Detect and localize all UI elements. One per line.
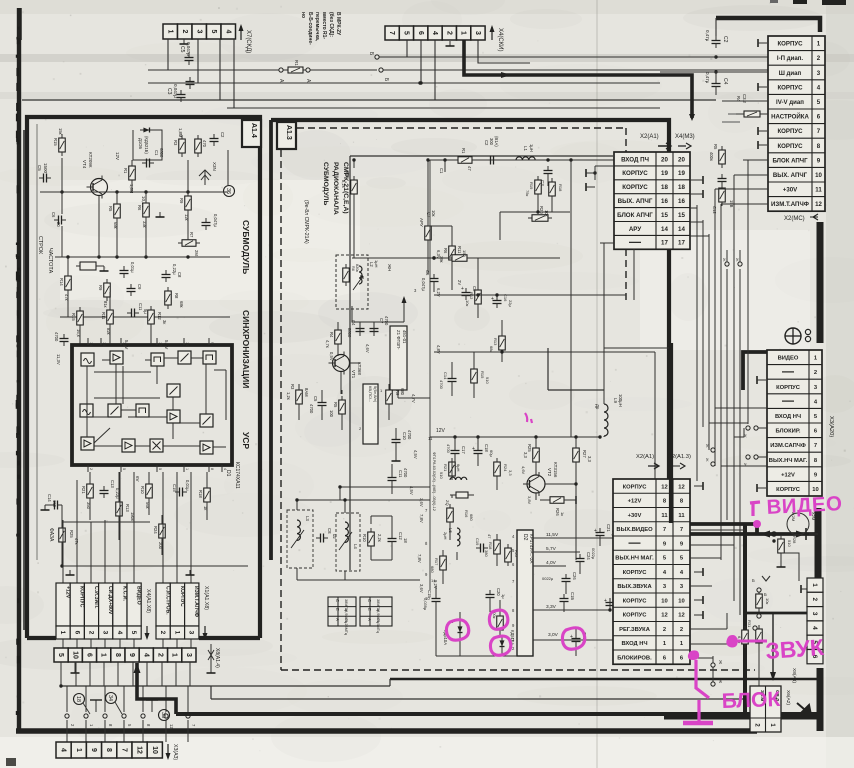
svg-text:8: 8 — [105, 748, 112, 752]
wires A14 upper verticals — [62, 150, 228, 345]
inductor L1 — [516, 157, 535, 160]
cap C9 — [127, 284, 136, 296]
svg-text:7,8V: 7,8V — [419, 514, 424, 523]
resistor R6a 39k — [449, 242, 456, 264]
svg-text:+: + — [472, 446, 475, 452]
label submodule radiokanala — [303, 162, 349, 244]
labels X2(A1) X2(A1.3) — [636, 454, 691, 469]
svg-text:4700: 4700 — [439, 380, 444, 390]
svg-text:Х8(А1.4): Х8(А1.4) — [214, 648, 220, 668]
svg-text:X4(СКИ): X4(СКИ) — [497, 28, 503, 51]
svg-text:Х3N: Х3N — [212, 162, 217, 171]
cap C24 0022u — [576, 548, 597, 566]
svg-text:10: 10 — [151, 746, 158, 754]
note text MRK-2U — [300, 12, 341, 45]
IC D1 box — [72, 345, 232, 465]
svg-text:X4(М3): X4(М3) — [675, 134, 695, 140]
resistor R28 510 — [771, 531, 797, 567]
svg-text:R9: R9 — [98, 285, 103, 291]
svg-text:С12: С12 — [398, 532, 403, 540]
svg-text:10: 10 — [815, 172, 822, 179]
svg-text:+: + — [604, 598, 607, 604]
gnd ticks right of X2 table — [694, 482, 703, 619]
cap C4a 8800 — [356, 324, 365, 336]
wire y83 long — [148, 82, 660, 84]
svg-text:ВХОД НЧ: ВХОД НЧ — [775, 414, 801, 420]
svg-text:С6: С6 — [51, 212, 56, 218]
svg-text:14: 14 — [661, 226, 668, 233]
small labels right mid — [712, 200, 734, 214]
wire row12 — [721, 203, 768, 205]
table X4(A1.X8) labels — [56, 583, 142, 639]
right vertical strip X5 — [807, 578, 823, 664]
svg-text:R6: R6 — [443, 248, 448, 254]
svg-text:11: 11 — [661, 513, 668, 519]
resistor R10a 2.2k — [368, 528, 375, 550]
resistor R5 400k — [719, 146, 726, 168]
svg-text:С20: С20 — [496, 588, 501, 596]
svg-text:3,6V: 3,6V — [419, 498, 424, 507]
svg-text:0,047μ: 0,047μ — [173, 84, 178, 98]
svg-text:5,7V: 5,7V — [546, 546, 557, 552]
svg-text:75к: 75к — [525, 190, 530, 196]
svg-text:ИЗМ.САПЧФ: ИЗМ.САПЧФ — [770, 443, 806, 449]
capacitor C3 0.047u — [177, 90, 186, 102]
svg-text:35: 35 — [160, 712, 166, 718]
resistor R1 1.8M — [129, 162, 136, 184]
svg-text:А: А — [335, 618, 340, 621]
cap C8 0.22u — [162, 270, 171, 282]
VT4 label — [82, 152, 93, 169]
svg-text:8АМ: 8АМ — [304, 388, 309, 397]
resistor R25a 3.3 — [533, 444, 540, 466]
svg-text:6: 6 — [73, 631, 80, 635]
cap C16b 22u pol — [491, 294, 513, 308]
svg-text:С2: С2 — [484, 140, 489, 146]
svg-text:С: С — [335, 599, 340, 602]
svg-text:+30V: +30V — [783, 187, 798, 194]
wire y70 right segment — [381, 69, 768, 71]
label CHASTOTA STROK — [37, 236, 53, 274]
svg-text:КОРПУС: КОРПУС — [179, 586, 185, 607]
svg-text:R17: R17 — [434, 558, 439, 566]
svg-text:7: 7 — [663, 527, 666, 533]
resistor R21a 910 — [449, 458, 456, 480]
connector table X2(MC) right — [768, 36, 825, 211]
svg-text:X1(А1.Х8): X1(А1.Х8) — [203, 586, 209, 610]
svg-text:10: 10 — [71, 651, 78, 659]
svg-text:L2: L2 — [369, 262, 374, 267]
label ARU + R7 — [419, 210, 436, 227]
resistor R15 16k — [77, 307, 84, 329]
cap C1 6800 — [142, 159, 154, 168]
svg-text:150: 150 — [462, 250, 467, 257]
svg-text:15к: 15к — [58, 128, 63, 135]
svg-text:7: 7 — [814, 443, 817, 449]
svg-text:1μН: 1μН — [374, 260, 379, 268]
cap C11 4700 — [388, 473, 397, 485]
resistor R16 680 — [447, 504, 454, 526]
svg-text:20: 20 — [678, 156, 685, 163]
magenta annotation BLOK — [683, 650, 781, 723]
svg-text:910: 910 — [439, 472, 444, 479]
contact J pair bottom — [711, 656, 723, 686]
svg-text:ВЫХ.ВИДЕО: ВЫХ.ВИДЕО — [616, 527, 653, 533]
leader 34 — [115, 702, 122, 714]
diode VD2 KD510A — [500, 637, 505, 651]
svg-text:16: 16 — [678, 198, 685, 205]
thick vertical bus x671 lower — [669, 343, 673, 523]
C4 stub — [715, 91, 717, 95]
svg-text:АРУ: АРУ — [419, 218, 424, 227]
svg-text:4,6V: 4,6V — [521, 466, 526, 475]
svg-text:С7: С7 — [379, 318, 384, 324]
svg-text:Х3(А3): Х3(А3) — [172, 744, 178, 760]
svg-text:100: 100 — [329, 410, 334, 418]
thick bus y714 — [176, 712, 818, 716]
filter box D1 FP — [385, 326, 416, 403]
svg-text:17: 17 — [661, 240, 668, 247]
svg-text:R4: R4 — [329, 332, 334, 338]
capacitor C2 0.47u — [712, 36, 721, 48]
X4(SKI) arrow and label — [490, 25, 504, 51]
svg-text:IV-V диап: IV-V диап — [776, 99, 804, 106]
coil L6 — [443, 528, 460, 546]
svg-text:47: 47 — [467, 166, 472, 171]
gnd ticks in contact row — [90, 700, 158, 712]
svg-text:12: 12 — [136, 746, 143, 754]
cap C14b 4700 — [448, 374, 457, 386]
wire A-R1-A y70 — [148, 69, 377, 71]
svg-text:Ж: Ж — [705, 444, 709, 448]
svg-text:ВИДЕО: ВИДЕО — [136, 586, 142, 605]
svg-text:(без СКД):: (без СКД): — [328, 12, 335, 37]
svg-text:2: 2 — [663, 627, 666, 633]
svg-text:2μН: 2μН — [443, 532, 448, 540]
coil L9 100uH — [595, 390, 623, 437]
svg-text:С24: С24 — [586, 552, 591, 560]
resistor R12a 10k — [475, 286, 482, 308]
resistor R11 82k — [107, 306, 114, 328]
svg-text:С21: С21 — [606, 524, 611, 532]
svg-text:1,2к: 1,2к — [286, 392, 291, 400]
resistor R5a 100 — [339, 396, 346, 418]
svg-text:9: 9 — [128, 653, 135, 657]
svg-text:1: 1 — [75, 748, 82, 752]
svg-text:60μ: 60μ — [489, 450, 494, 457]
svg-text:Ж: Ж — [705, 458, 709, 462]
capacitor C4 0.47u — [712, 79, 721, 91]
svg-text:D1: D1 — [225, 470, 231, 477]
svg-text:0,5V: 0,5V — [329, 352, 334, 361]
svg-text:3,3: 3,3 — [523, 452, 528, 458]
contact pair row8 — [743, 455, 767, 467]
svg-text:0022μ: 0022μ — [591, 548, 596, 560]
wire strip verticals down — [61, 662, 190, 686]
leader 18 — [83, 703, 90, 714]
crystal ZQ1 — [445, 492, 474, 506]
svg-text:КОРПУС: КОРПУС — [623, 484, 648, 490]
svg-text:9: 9 — [210, 342, 214, 344]
page border left — [16, 8, 21, 731]
svg-text:R27: R27 — [582, 450, 587, 458]
wires from X1 rows to verticals — [600, 208, 709, 300]
ladder stubs — [452, 258, 655, 479]
svg-text:10: 10 — [661, 598, 667, 604]
VD label — [443, 620, 454, 645]
long vertical wires right of tables — [697, 160, 748, 615]
svg-text:4: 4 — [116, 631, 123, 635]
svg-text:3: 3 — [102, 631, 109, 635]
svg-text:КОРПУС: КОРПУС — [777, 41, 803, 48]
block A1.3 left inner thick — [269, 120, 273, 560]
svg-text:470: 470 — [202, 140, 207, 148]
svg-text:Е: Е — [367, 608, 372, 611]
dashed box L3 — [287, 510, 313, 568]
svg-text:510: 510 — [787, 540, 792, 547]
svg-text:0,047μ: 0,047μ — [186, 42, 191, 56]
magenta annotation VIDEO — [750, 492, 843, 528]
svg-text:300: 300 — [489, 138, 494, 146]
svg-text:4700: 4700 — [384, 316, 389, 326]
svg-text:БЛОК АПЧГ: БЛОК АПЧГ — [617, 212, 653, 219]
cap pol C9a 1u — [461, 286, 482, 300]
svg-text:X2(МС): X2(МС) — [784, 216, 805, 222]
svg-text:+30V: +30V — [628, 513, 642, 519]
svg-text:R24: R24 — [503, 464, 508, 472]
antenna mark X3N — [199, 162, 217, 185]
svg-text:15: 15 — [661, 212, 668, 219]
junction y83 — [418, 81, 421, 84]
X7 pin3 wire down — [197, 39, 199, 83]
svg-text:0,01μ: 0,01μ — [130, 262, 135, 273]
svg-text:12V: 12V — [115, 152, 120, 160]
transistor VT2 — [523, 472, 545, 496]
wire rail y317 — [60, 315, 230, 318]
page border bottom — [16, 728, 757, 734]
resistor R27 3.3 — [573, 444, 580, 466]
wires bottom parts — [436, 586, 576, 656]
svg-text:ВЫХ.НЧ МАГ.: ВЫХ.НЧ МАГ. — [769, 458, 808, 464]
svg-text:С4: С4 — [722, 78, 728, 85]
resistor R24a 3.3 — [494, 458, 501, 480]
svg-text:6,3V: 6,3V — [436, 250, 441, 259]
svg-text:С1: С1 — [439, 168, 444, 174]
svg-text:1к: 1к — [560, 512, 565, 516]
svg-text:11: 11 — [428, 436, 433, 441]
cap C15a 0.039 — [423, 578, 441, 611]
svg-text:Д1ОБ: Д1ОБ — [138, 138, 143, 149]
svg-text:R5: R5 — [108, 206, 113, 212]
svg-text:R11: R11 — [457, 246, 462, 254]
cap C2a — [210, 134, 219, 146]
svg-text:С13: С13 — [110, 480, 115, 488]
connector X8(A1.4) — [54, 648, 196, 662]
svg-text:4700: 4700 — [309, 404, 314, 414]
svg-text:С5: С5 — [179, 46, 185, 53]
resistor R6 820k in box — [343, 264, 350, 286]
resistor R18b 4.7k — [549, 178, 556, 200]
svg-text:1μ: 1μ — [501, 594, 506, 599]
resistor R12 3k — [148, 306, 155, 328]
magenta stray mark — [525, 413, 532, 423]
resistor R15k — [59, 134, 66, 156]
wire RF input y160 — [430, 158, 614, 161]
svg-text:2: 2 — [159, 631, 166, 635]
svg-text:11: 11 — [678, 513, 685, 519]
wires R20 cluster — [500, 198, 570, 240]
svg-text:С17: С17 — [461, 446, 466, 454]
resistor R17a 680 — [440, 552, 447, 574]
svg-text:R18: R18 — [558, 184, 563, 192]
svg-text:L9: L9 — [613, 398, 618, 404]
svg-text:12: 12 — [169, 724, 174, 729]
resistor R30 6.8k — [737, 626, 748, 648]
svg-text:РЕГ.ЗВУКА: РЕГ.ЗВУКА — [619, 627, 651, 633]
ground under X4 pin 2 — [446, 41, 455, 46]
voltage labels next to D2 — [542, 532, 559, 638]
svg-text:С8: С8 — [327, 528, 332, 534]
wire row9 blok apchg — [743, 159, 768, 161]
svg-text:11: 11 — [815, 187, 822, 194]
circle loop near video — [787, 513, 809, 535]
svg-text:17: 17 — [678, 240, 685, 247]
svg-text:С9: С9 — [137, 284, 142, 290]
cap C20 1u — [486, 588, 507, 602]
wire rail y192 — [40, 190, 228, 193]
cap C26 0022u — [562, 572, 578, 586]
svg-text:R6: R6 — [351, 266, 355, 271]
svg-text:КОРПУС: КОРПУС — [622, 170, 648, 177]
contact A left — [279, 68, 283, 72]
svg-text:Б: Б — [764, 592, 767, 597]
svg-text:15: 15 — [678, 212, 685, 219]
svg-text:С11: С11 — [138, 303, 143, 311]
small marks right of circle — [805, 329, 810, 341]
svg-text:(В1А): (В1А) — [494, 136, 499, 147]
svg-text:4: 4 — [431, 31, 438, 35]
svg-text:ЖН: ЖН — [387, 264, 392, 271]
resistor R3 1.8M — [179, 135, 186, 157]
svg-text:11,5V: 11,5V — [546, 532, 559, 538]
svg-text:0,47μ: 0,47μ — [705, 72, 710, 84]
svg-text:R7: R7 — [189, 232, 194, 238]
svg-text:R3: R3 — [290, 384, 295, 390]
svg-text:7,8V: 7,8V — [417, 554, 422, 563]
junction C4 — [714, 70, 717, 79]
svg-text:14: 14 — [89, 342, 93, 346]
cap C3a — [544, 166, 553, 178]
wire bottom row y656 — [436, 655, 517, 657]
resistor R31 51k — [742, 620, 762, 686]
C2 labels — [705, 30, 728, 43]
resistor R21 350 — [87, 480, 94, 502]
gnd tick near strip — [801, 585, 810, 593]
svg-text:АРУ: АРУ — [629, 226, 642, 233]
svg-text:С8: С8 — [177, 272, 182, 278]
cap C6 20 — [54, 216, 66, 225]
svg-text:680: 680 — [400, 388, 405, 396]
dashed box L2 — [336, 255, 368, 309]
svg-text:20: 20 — [661, 156, 668, 163]
svg-text:X4(А1.Х8): X4(А1.Х8) — [145, 589, 151, 613]
svg-text:Др: Др — [595, 404, 600, 410]
svg-text:СУБМОДУЛЬ: СУБМОДУЛЬ — [322, 162, 329, 205]
svg-text:4: 4 — [60, 748, 67, 752]
wire row2 to left — [660, 56, 716, 58]
label X4(A1.X8) — [145, 589, 152, 640]
svg-text:2,2к: 2,2к — [377, 534, 382, 542]
bus thin y699 — [211, 698, 757, 700]
svg-text:R10: R10 — [362, 534, 367, 542]
svg-text:10к: 10к — [544, 210, 549, 217]
resistor small below — [719, 184, 726, 206]
svg-text:С2: С2 — [220, 132, 225, 138]
svg-text:Ш диап: Ш диап — [779, 70, 802, 77]
svg-text:КОРПУС: КОРПУС — [79, 586, 85, 608]
diode VD KD510A — [458, 623, 463, 637]
resistor R7 2M — [178, 240, 200, 247]
VT1 labels — [329, 344, 370, 379]
svg-text:36: 36 — [225, 188, 231, 194]
C1a label — [484, 136, 499, 147]
svg-text:820к: 820к — [355, 264, 359, 272]
svg-text:КОРПУС: КОРПУС — [623, 613, 648, 619]
svg-text:СТРОК: СТРОК — [37, 236, 43, 255]
X7 pin1 wire down — [167, 39, 169, 70]
svg-text:ФАЗА: ФАЗА — [48, 528, 54, 542]
contact singles left — [705, 444, 715, 466]
svg-text:18: 18 — [661, 184, 668, 191]
cap C1a — [486, 156, 498, 165]
svg-text:12: 12 — [815, 201, 822, 208]
svg-text:R12: R12 — [469, 292, 474, 300]
svg-text:0022μ: 0022μ — [542, 576, 554, 581]
svg-text:0,047μ: 0,047μ — [421, 278, 426, 291]
bus vertical x211 — [210, 686, 212, 699]
wire to right table row2 — [716, 56, 768, 58]
IC D1 pin stubs top — [88, 338, 214, 346]
svg-text:R8: R8 — [174, 293, 179, 299]
thick vertical bus x745 down — [743, 525, 747, 716]
svg-text:КОРПУС: КОРПУС — [777, 143, 803, 150]
resistor R18 1k — [204, 484, 211, 506]
svg-text:5: 5 — [122, 468, 126, 470]
A13 wires upper — [338, 158, 452, 398]
svg-text:ВХОД ПЧ: ВХОД ПЧ — [621, 156, 649, 163]
svg-text:R1: R1 — [461, 148, 466, 154]
mark bottom left corner — [6, 758, 16, 766]
pin numbers right col — [425, 508, 430, 601]
svg-text:12: 12 — [678, 484, 684, 490]
svg-text:68к: 68к — [179, 301, 184, 308]
resistor R5 68k — [114, 200, 121, 222]
svg-text:КОРПУС: КОРПУС — [623, 598, 648, 604]
svg-text:ВЫХ.НЧ МАГ.: ВЫХ.НЧ МАГ. — [615, 556, 654, 562]
svg-text:3к: 3к — [162, 320, 167, 324]
svg-text:С5: С5 — [37, 165, 42, 171]
magenta annotation ZVUK — [727, 634, 826, 664]
svg-text:VT1: VT1 — [351, 370, 356, 379]
thick wire y613 — [745, 612, 807, 615]
svg-text:ВЫХ. АПЧГ: ВЫХ. АПЧГ — [618, 198, 653, 205]
gnd ticks left of right table — [758, 39, 767, 149]
svg-text:14: 14 — [431, 578, 436, 583]
svg-text:VT4: VT4 — [82, 160, 87, 169]
wire from R28 to strip — [781, 553, 799, 581]
svg-text:R10: R10 — [140, 486, 145, 494]
cap C13 0.22u — [100, 486, 109, 498]
